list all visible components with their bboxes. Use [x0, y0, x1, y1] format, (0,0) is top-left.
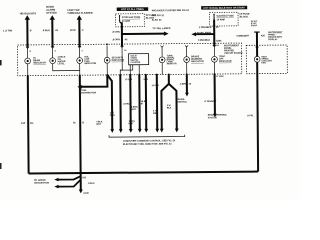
- svg-text:A20: A20: [261, 34, 266, 37]
- svg-text:.8 DKG: .8 DKG: [123, 103, 131, 105]
- svg-text:COMPUTER COMMAND CONTROL: SEE: COMPUTER COMMAND CONTROL: SEE FIG. 24: [123, 139, 176, 142]
- svg-text:INDICATOR: INDICATOR: [219, 60, 232, 63]
- svg-text:TO I/P LAMPS: TO I/P LAMPS: [197, 31, 212, 34]
- svg-text:CLUSTER: CLUSTER: [130, 62, 140, 64]
- svg-text:DK GREEN: DK GREEN: [34, 180, 46, 182]
- svg-text:TO TAIL LAMPS: TO TAIL LAMPS: [152, 27, 170, 30]
- svg-text:TURN/HAZ FLASHER: TURN/HAZ FLASHER: [67, 12, 92, 15]
- svg-text:.8 BRN: .8 BRN: [179, 84, 187, 86]
- svg-text:HOT AT ALL TIMES: HOT AT ALL TIMES: [121, 8, 144, 11]
- svg-text:A6: A6: [124, 49, 126, 52]
- svg-text:CONTROL: CONTROL: [176, 102, 187, 104]
- svg-text:2 PNK/BLK: 2 PNK/BLK: [199, 26, 212, 29]
- svg-text:SYSTEM: SYSTEM: [208, 117, 217, 119]
- svg-text:5 BRN/WHT: 5 BRN/WHT: [236, 36, 249, 38]
- svg-text:.8 ORN: .8 ORN: [112, 32, 120, 34]
- svg-text:INDICATOR: INDICATOR: [191, 60, 204, 63]
- svg-text:BLOCK: BLOCK: [240, 15, 249, 18]
- svg-text:S206: S206: [216, 40, 222, 42]
- svg-text:.8 TAN/WHT: .8 TAN/WHT: [204, 100, 217, 103]
- svg-text:G150: G150: [83, 193, 89, 195]
- svg-text:16 DKG: 16 DKG: [152, 85, 160, 87]
- svg-text:1 .8 TAN: 1 .8 TAN: [3, 29, 13, 32]
- svg-text:ELECTRONIC FUEL INJECTION: SEE: ELECTRONIC FUEL INJECTION: SEE FIG. 31: [123, 144, 172, 146]
- svg-text:.8 BLK: .8 BLK: [88, 183, 95, 185]
- svg-text:C: C: [82, 29, 84, 32]
- svg-text:.8 PPL: .8 PPL: [247, 115, 254, 117]
- svg-text:INDICATOR: INDICATOR: [112, 59, 125, 62]
- svg-text:.8 W: .8 W: [21, 123, 27, 125]
- svg-text:LEVEL: LEVEL: [58, 63, 66, 65]
- svg-text:INDICATOR: INDICATOR: [33, 61, 46, 64]
- svg-text:MB: MB: [153, 113, 157, 115]
- svg-text:10 AMP: 10 AMP: [216, 18, 225, 21]
- svg-text:CIRCUIT BOARD: CIRCUIT BOARD: [224, 52, 243, 55]
- svg-text:WHT: WHT: [96, 124, 102, 126]
- svg-text:LT GRN: LT GRN: [125, 79, 133, 81]
- svg-text:.8 BLK: .8 BLK: [42, 29, 50, 32]
- svg-text:WHT: WHT: [131, 109, 137, 111]
- svg-text:BRAKE WARNING: BRAKE WARNING: [208, 113, 227, 116]
- svg-text:LT GRN: LT GRN: [216, 76, 224, 78]
- svg-text:HOT IN RUN, BULB TEST OR START: HOT IN RUN, BULB TEST OR START: [203, 6, 245, 9]
- svg-text:18 W: 18 W: [143, 79, 148, 81]
- svg-text:SEE FIG 31: SEE FIG 31: [152, 15, 165, 17]
- svg-text:SYSTEM: SYSTEM: [46, 12, 56, 15]
- svg-text:W/GAUGES CLUSTER SEE FIG 34: W/GAUGES CLUSTER SEE FIG 34: [152, 9, 190, 12]
- svg-text:DISTRIBUTOR: DISTRIBUTOR: [81, 92, 96, 94]
- svg-text:HEADLIGHTS: HEADLIGHTS: [20, 12, 37, 15]
- svg-text:GAUGES FUSE: GAUGES FUSE: [216, 14, 234, 17]
- svg-text:MONITOR: MONITOR: [167, 63, 177, 65]
- svg-text:GRN: GRN: [110, 115, 115, 117]
- svg-text:DG: DG: [30, 123, 34, 125]
- svg-text:18 W: 18 W: [70, 29, 76, 32]
- svg-text:INTEGRATION: INTEGRATION: [34, 181, 49, 184]
- svg-text:ALSO 30: ALSO 30: [152, 19, 162, 22]
- svg-text:20 AMP: 20 AMP: [122, 20, 131, 23]
- svg-text:B: B: [30, 29, 32, 32]
- svg-text:DISPLAY: DISPLAY: [268, 38, 278, 41]
- svg-text:WHT: WHT: [128, 123, 134, 125]
- svg-text:FAN: FAN: [261, 61, 266, 64]
- svg-text:5 PNK/BLK: 5 PNK/BLK: [198, 40, 210, 42]
- svg-text:STOP HAZ FUSE: STOP HAZ FUSE: [122, 16, 141, 19]
- svg-text:EQUIP: EQUIP: [251, 25, 258, 27]
- svg-text:BLK: BLK: [167, 108, 172, 110]
- svg-text:.8 ORN: .8 ORN: [112, 39, 120, 41]
- svg-text:INDICATOR: INDICATOR: [84, 62, 96, 65]
